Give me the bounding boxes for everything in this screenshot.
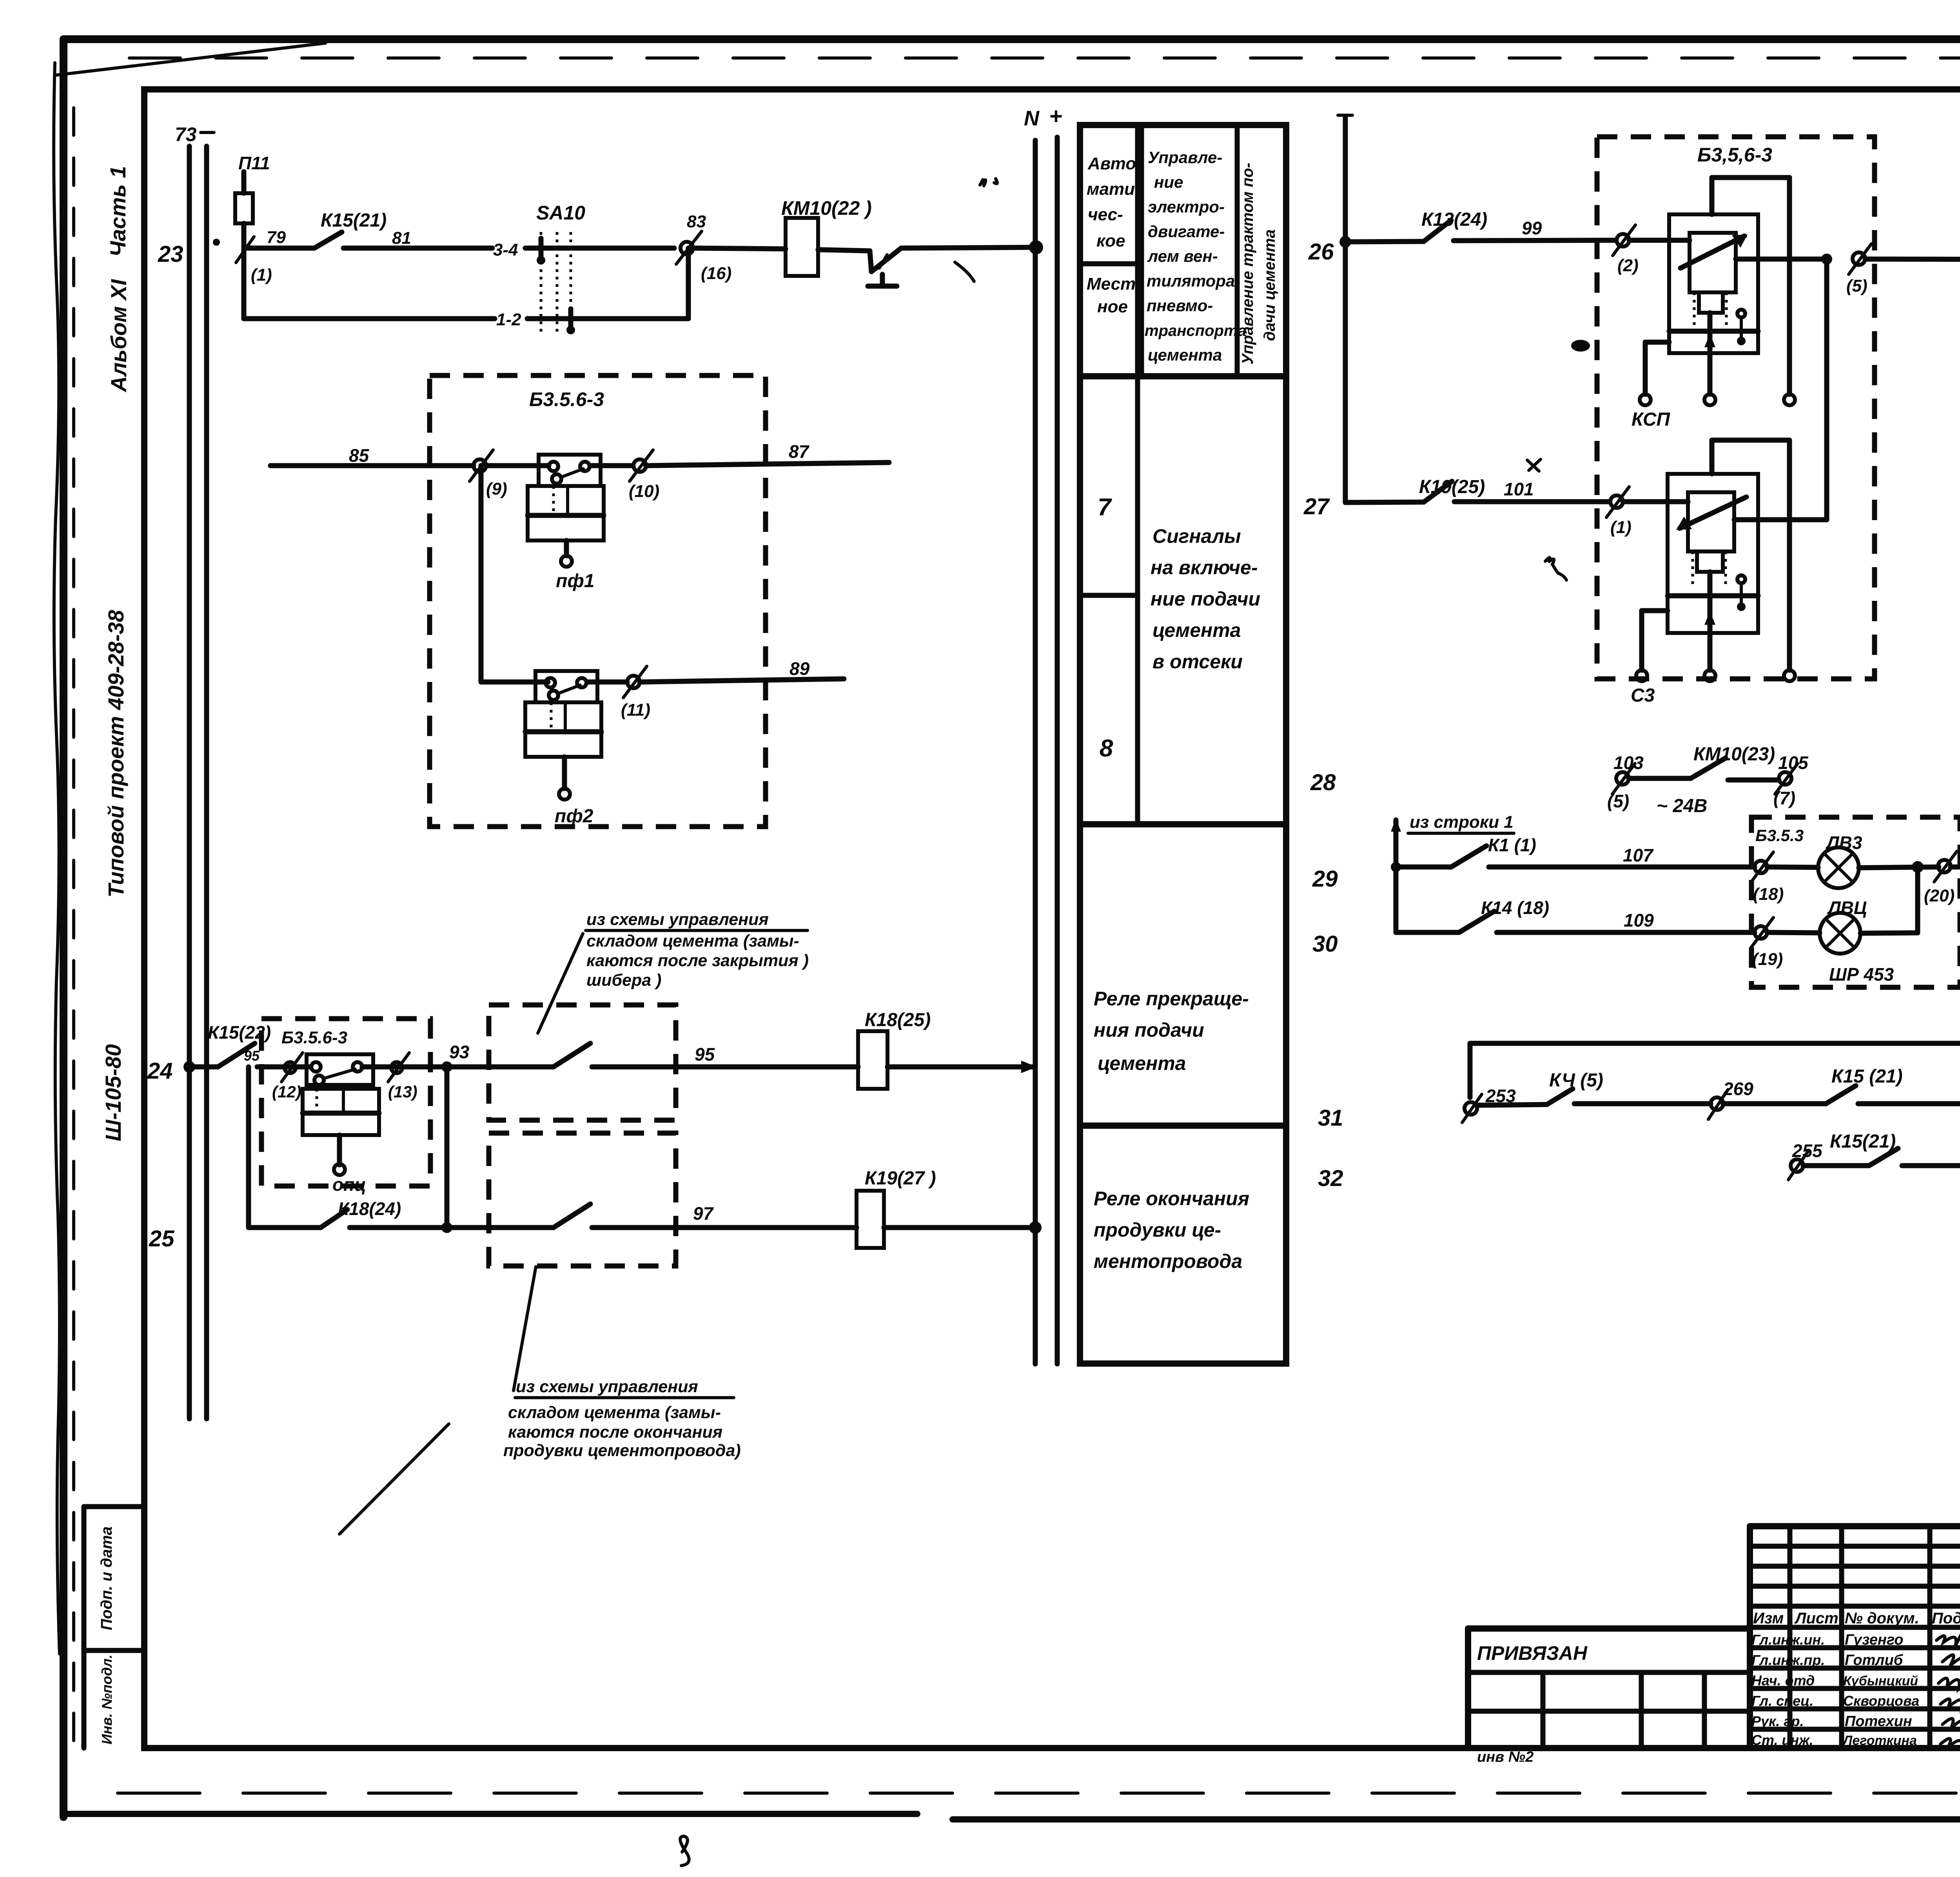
wire 101 row 27 xyxy=(1454,479,1609,502)
svg-text:каются после закрытия ): каются после закрытия ) xyxy=(586,951,809,970)
svg-text:ное: ное xyxy=(1097,297,1128,316)
svg-text:продувки цементопровода): продувки цементопровода) xyxy=(503,1441,741,1460)
svg-text:(2): (2) xyxy=(1617,256,1639,275)
contact K15(21) row 32 xyxy=(1803,1131,1960,1166)
svg-text:Альбом XI: Альбом XI xyxy=(106,279,131,393)
svg-text:Изм: Изм xyxy=(1753,1610,1784,1627)
contact K13(24) row 26 xyxy=(1421,209,1487,241)
svg-text:КМ10(23): КМ10(23) xyxy=(1693,744,1775,765)
svg-text:дачи цемента: дачи цемента xyxy=(1261,229,1278,341)
svg-text:29: 29 xyxy=(1312,866,1338,892)
svg-text:К15(21): К15(21) xyxy=(321,210,387,231)
svg-text:двигате-: двигате- xyxy=(1148,222,1225,241)
svg-text:лем вен-: лем вен- xyxy=(1147,247,1218,265)
contact КЧ(5) row 31 xyxy=(1476,1070,1603,1105)
block Б3.5.6-3 dashed box (gate switch ОПЦ) xyxy=(261,1019,430,1186)
svg-text:87: 87 xyxy=(789,441,810,462)
svg-text:ментопровода: ментопровода xyxy=(1094,1250,1242,1272)
svg-text:ние подачи: ние подачи xyxy=(1151,588,1260,610)
wire row 26 to plus xyxy=(1865,111,1960,260)
relay coil K18(25) xyxy=(858,1010,931,1089)
terminal 105 (7) row 28 xyxy=(1773,753,1809,808)
svg-text:ЛВ3: ЛВ3 xyxy=(1826,832,1862,853)
svg-text:Б3.5.6-3: Б3.5.6-3 xyxy=(281,1028,347,1047)
valve block 1 (row 26) xyxy=(1629,178,1789,353)
svg-text:107: 107 xyxy=(1623,845,1654,865)
svg-text:Подпись: Подпись xyxy=(1932,1610,1960,1627)
svg-text:7: 7 xyxy=(1098,494,1112,521)
svg-text:1-2: 1-2 xyxy=(496,310,521,329)
svg-text:складом цемента (замы-: складом цемента (замы- xyxy=(508,1403,721,1422)
svg-text:опц: опц xyxy=(332,1174,366,1195)
contact (10) xyxy=(629,450,659,501)
svg-text:инв №2: инв №2 xyxy=(1477,1749,1534,1765)
svg-text:Часть 1: Часть 1 xyxy=(105,166,130,257)
svg-text:85: 85 xyxy=(349,445,370,466)
block Б3,5,6-3 dashed box (valve blocks) xyxy=(1597,137,1875,679)
svg-text:Ш-105-80: Ш-105-80 xyxy=(101,1044,125,1141)
svg-text:(12): (12) xyxy=(272,1083,301,1101)
terminal middle block1 xyxy=(1704,313,1715,405)
svg-text:N: N xyxy=(1024,107,1040,130)
contact (12) xyxy=(257,1053,310,1101)
svg-text:105: 105 xyxy=(1778,753,1809,773)
svg-text:73: 73 xyxy=(175,123,197,145)
svg-text:мати-: мати- xyxy=(1087,180,1141,199)
svg-text:95: 95 xyxy=(244,1048,260,1064)
terminal middle block2 xyxy=(1704,572,1715,681)
svg-text:№ докум.: № докум. xyxy=(1845,1610,1919,1627)
svg-text:ШР 453: ШР 453 xyxy=(1829,964,1894,985)
svg-text:ние: ние xyxy=(1154,173,1183,191)
node 269 row 31 xyxy=(1574,1079,1753,1119)
svg-text:КМ10(22 ): КМ10(22 ) xyxy=(781,197,872,219)
svg-text:Б3.5.3: Б3.5.3 xyxy=(1755,826,1804,845)
svg-text:103: 103 xyxy=(1613,753,1644,773)
svg-text:(19): (19) xyxy=(1752,950,1783,969)
contact (18) row 29 xyxy=(1751,852,1784,904)
svg-text:транспорта: транспорта xyxy=(1145,322,1247,339)
svg-text:SA10: SA10 xyxy=(536,202,585,224)
svg-text:101: 101 xyxy=(1504,479,1534,499)
svg-text:99: 99 xyxy=(1522,218,1542,238)
wire 81 row 23 xyxy=(343,229,492,248)
svg-text:пф1: пф1 xyxy=(556,571,594,591)
svg-text:цемента: цемента xyxy=(1152,619,1241,641)
contact K18(24) row 25 xyxy=(321,1199,401,1228)
svg-text:Скворцова: Скворцова xyxy=(1843,1693,1919,1709)
lamp ЛВЦ xyxy=(1767,898,1867,954)
svg-text:(10): (10) xyxy=(629,482,659,501)
svg-text:пневмо-: пневмо- xyxy=(1147,296,1213,315)
dashed box (contacts closed after gate shuts), row 24 xyxy=(489,1005,676,1120)
wire 107 row 29 xyxy=(1489,845,1755,867)
svg-text:Управление трактом по-: Управление трактом по- xyxy=(1239,163,1256,365)
bus plus (middle) xyxy=(1049,103,1062,1364)
valve block 2 (row 27) xyxy=(1623,440,1789,633)
svg-text:Потехин: Потехин xyxy=(1845,1713,1912,1730)
terminal right block1 xyxy=(1784,178,1795,405)
contact K15(22) row 24 xyxy=(208,1022,271,1067)
wire 97 row 25 xyxy=(592,1203,857,1228)
svg-text:(13): (13) xyxy=(388,1083,417,1101)
svg-text:К14 (18): К14 (18) xyxy=(1481,898,1549,918)
svg-text:Готлиб: Готлиб xyxy=(1845,1652,1904,1668)
svg-text:Б3.5.6-3: Б3.5.6-3 xyxy=(529,388,604,410)
svg-text:цемента: цемента xyxy=(1148,346,1222,364)
node from line 1 (left) xyxy=(1391,812,1514,932)
svg-text:8: 8 xyxy=(1100,735,1113,762)
svg-text:(9): (9) xyxy=(486,479,507,499)
wire 79 row 23 xyxy=(244,228,314,248)
wire lower branch row 23 (1-2) xyxy=(244,248,688,319)
svg-text:30: 30 xyxy=(1312,931,1338,957)
bus + right feed xyxy=(1338,115,1352,502)
limit switch ПФ2 xyxy=(525,671,627,827)
contact KM10(23) row 28 xyxy=(1629,744,1779,780)
switch SA10 xyxy=(493,202,688,334)
fuse П11 xyxy=(235,153,270,248)
wire row 24 to N bus xyxy=(887,1061,1037,1073)
svg-text:Ст. инж.: Ст. инж. xyxy=(1751,1732,1813,1748)
svg-text:Кубынцкий: Кубынцкий xyxy=(1843,1674,1918,1688)
svg-text:81: 81 xyxy=(392,229,411,248)
svg-text:(5): (5) xyxy=(1607,791,1629,811)
svg-text:К13(24): К13(24) xyxy=(1421,209,1487,230)
dashed box (contacts closed after purge), row 25 xyxy=(489,1133,676,1266)
svg-text:пф2: пф2 xyxy=(555,806,593,827)
svg-text:продувки це-: продувки це- xyxy=(1094,1219,1221,1241)
external contact row 24 xyxy=(447,1043,590,1067)
svg-text:кое: кое xyxy=(1096,231,1125,250)
svg-text:Мест-: Мест- xyxy=(1087,274,1142,294)
svg-text:С3: С3 xyxy=(1631,685,1655,706)
svg-text:255: 255 xyxy=(1792,1141,1823,1161)
wire 113 to line 1 xyxy=(1951,789,1960,867)
contact (13) xyxy=(362,1053,447,1101)
svg-text:в отсеки: в отсеки xyxy=(1152,651,1243,673)
wire row 23 to N bus xyxy=(901,240,1043,281)
contact (11) xyxy=(621,666,650,720)
contact (9) xyxy=(470,450,507,499)
svg-text:(7): (7) xyxy=(1773,788,1795,808)
limit switch ПФ1 xyxy=(486,455,633,591)
box ШР453 dashed xyxy=(1751,817,1960,987)
svg-text:95: 95 xyxy=(695,1044,715,1065)
svg-text:из строки 1: из строки 1 xyxy=(1410,812,1514,832)
wire row 25 to node 93 branch xyxy=(350,1222,554,1233)
svg-text:Гл. спец.: Гл. спец. xyxy=(1751,1693,1813,1709)
wire 85 (to filter block) xyxy=(270,445,474,466)
contact K1(1) row 29 xyxy=(1396,835,1536,867)
svg-text:Нач. отд: Нач. отд xyxy=(1751,1672,1815,1688)
svg-text:109: 109 xyxy=(1624,910,1654,930)
svg-text:К18(24): К18(24) xyxy=(338,1199,401,1219)
svg-text:32: 32 xyxy=(1318,1166,1343,1191)
svg-text:Реле окончания: Реле окончания xyxy=(1094,1188,1249,1210)
svg-text:(1): (1) xyxy=(251,265,272,285)
terminal С3 xyxy=(1631,611,1668,706)
svg-text:Леготкина: Леготкина xyxy=(1842,1733,1917,1748)
svg-text:83: 83 xyxy=(687,212,706,231)
svg-text:97: 97 xyxy=(693,1203,714,1224)
svg-text:тилятора: тилятора xyxy=(1147,272,1235,290)
contact (1) row 27 xyxy=(1606,487,1632,537)
wire row 27 from bus xyxy=(1345,502,1424,502)
svg-text:31: 31 xyxy=(1318,1105,1343,1131)
svg-text:26: 26 xyxy=(1308,239,1334,265)
svg-text:~ 24В: ~ 24В xyxy=(1657,796,1707,816)
wire 87 xyxy=(646,441,889,466)
svg-text:Гузенго: Гузенго xyxy=(1845,1632,1904,1648)
svg-text:(20): (20) xyxy=(1924,886,1955,905)
svg-text:К15 (21): К15 (21) xyxy=(1831,1066,1903,1087)
contact (1) on fuse branch, row 23 xyxy=(236,237,272,285)
svg-text:складом цемента (замы-: складом цемента (замы- xyxy=(586,932,799,950)
svg-text:27: 27 xyxy=(1303,494,1330,519)
svg-text:К15(21): К15(21) xyxy=(1830,1131,1896,1152)
wire row 24 from bus xyxy=(183,1061,218,1073)
svg-text:25: 25 xyxy=(149,1226,174,1251)
svg-text:ния подачи: ния подачи xyxy=(1094,1019,1204,1041)
contact (20) xyxy=(1924,851,1957,905)
contact K15(21) row 31 xyxy=(1723,1066,1960,1104)
svg-text:цемента: цемента xyxy=(1098,1052,1186,1074)
svg-text:К19(27 ): К19(27 ) xyxy=(865,1168,936,1189)
bus minus (left supply bus 2) xyxy=(201,132,214,1419)
svg-text:28: 28 xyxy=(1310,770,1336,795)
block Б3.5.6-3 dashed box (filter switches) xyxy=(430,375,766,827)
svg-text:Гл.инж.пр.: Гл.инж.пр. xyxy=(1751,1652,1825,1668)
svg-text:из схемы управления: из схемы управления xyxy=(516,1377,698,1396)
svg-text:КСП: КСП xyxy=(1632,409,1671,430)
contactor coil KM10(22) xyxy=(781,197,872,276)
svg-text:(16): (16) xyxy=(701,264,731,283)
svg-text:269: 269 xyxy=(1723,1079,1753,1099)
svg-text:каются после окончания: каются после окончания xyxy=(508,1423,722,1442)
wire 83 row 23 xyxy=(693,248,786,249)
contact K19(25) row 27 xyxy=(1419,459,1541,502)
node 93 xyxy=(441,1042,470,1228)
svg-text:(5): (5) xyxy=(1846,276,1867,296)
svg-text:79: 79 xyxy=(267,228,286,247)
svg-text:Инв. №подл.: Инв. №подл. xyxy=(99,1654,115,1744)
svg-text:КЧ (5): КЧ (5) xyxy=(1549,1070,1603,1091)
svg-text:(1): (1) xyxy=(1610,518,1632,537)
wire 109 row 30 xyxy=(1497,910,1755,932)
svg-text:Авто-: Авто- xyxy=(1087,154,1142,173)
terminal КСП xyxy=(1632,342,1671,430)
svg-text:ПРИВЯЗАН: ПРИВЯЗАН xyxy=(1477,1642,1588,1664)
switch ОПЦ xyxy=(303,1054,379,1195)
svg-text:Рук. гр.: Рук. гр. xyxy=(1751,1713,1804,1729)
contact K14(18) row 30 xyxy=(1396,898,1549,932)
bus 73 (left supply bus) xyxy=(175,123,197,1419)
svg-text:К19(25): К19(25) xyxy=(1419,477,1485,497)
wire loop row 31 xyxy=(1470,1043,1960,1104)
svg-text:К1 (1): К1 (1) xyxy=(1488,835,1536,855)
wire 89 xyxy=(640,658,844,682)
external contact row 25 xyxy=(554,1204,590,1228)
svg-text:из схемы управления: из схемы управления xyxy=(586,910,769,929)
svg-text:Б3,5,6-3: Б3,5,6-3 xyxy=(1697,144,1772,166)
contact (2) row 26 xyxy=(1613,225,1639,275)
svg-text:Сигналы: Сигналы xyxy=(1152,525,1241,547)
svg-text:Реле прекраще-: Реле прекраще- xyxy=(1094,988,1249,1010)
svg-text:чес-: чес- xyxy=(1088,205,1123,224)
wire row 25 to N bus xyxy=(884,1221,1042,1234)
svg-text:шибера ): шибера ) xyxy=(586,971,661,990)
wire row 25 start xyxy=(249,1067,321,1228)
wire branch to ПФ2 xyxy=(481,466,535,682)
label ~24В xyxy=(1657,796,1707,816)
contact (16) node 83 xyxy=(676,212,731,283)
svg-text:3-4: 3-4 xyxy=(493,240,518,259)
svg-text:93: 93 xyxy=(449,1042,470,1062)
wire block1 output row 26 xyxy=(1736,254,1832,520)
wire row 26 from bus xyxy=(1339,236,1424,248)
svg-text:23: 23 xyxy=(158,241,183,267)
breaker contact after KM10(22) xyxy=(818,248,901,286)
svg-text:К18(25): К18(25) xyxy=(865,1010,931,1030)
svg-text:Гл.инж.ин.: Гл.инж.ин. xyxy=(1751,1632,1825,1648)
svg-text:Подп. и дата: Подп. и дата xyxy=(98,1527,115,1630)
bus N (neutral) xyxy=(1024,107,1040,1364)
svg-text:электро-: электро- xyxy=(1148,198,1225,216)
contact (5) row 26 xyxy=(1846,244,1871,296)
terminal right block2 xyxy=(1784,440,1795,681)
svg-text:Лист: Лист xyxy=(1794,1610,1838,1627)
terminal 103 (5) row 28 xyxy=(1607,753,1644,811)
svg-text:Типовой проект 409-28-38: Типовой проект 409-28-38 xyxy=(103,609,128,898)
svg-text:на включе-: на включе- xyxy=(1151,557,1258,579)
svg-text:24: 24 xyxy=(147,1058,173,1084)
svg-text:89: 89 xyxy=(789,658,810,679)
relay coil K19(27) xyxy=(857,1168,936,1248)
svg-text:ЛВЦ: ЛВЦ xyxy=(1827,898,1867,918)
wire lamp outputs junction xyxy=(1859,861,1939,933)
svg-text:Управле-: Управле- xyxy=(1148,148,1222,167)
terminal 253 row 31 xyxy=(1462,1086,1516,1123)
svg-text:+: + xyxy=(1049,103,1062,129)
svg-text:(18): (18) xyxy=(1753,885,1784,904)
svg-text:(11): (11) xyxy=(621,700,650,720)
lamp ЛВ3 xyxy=(1767,832,1862,888)
terminal 255 row 32 xyxy=(1788,1141,1823,1180)
contact (19) row 30 xyxy=(1751,918,1783,969)
contact K15(21) row 23 xyxy=(314,210,387,248)
wire 95 row 24 xyxy=(592,1044,858,1067)
wire block2 output row 27 xyxy=(1734,517,1827,522)
wire 99 row 26 xyxy=(1454,218,1615,241)
